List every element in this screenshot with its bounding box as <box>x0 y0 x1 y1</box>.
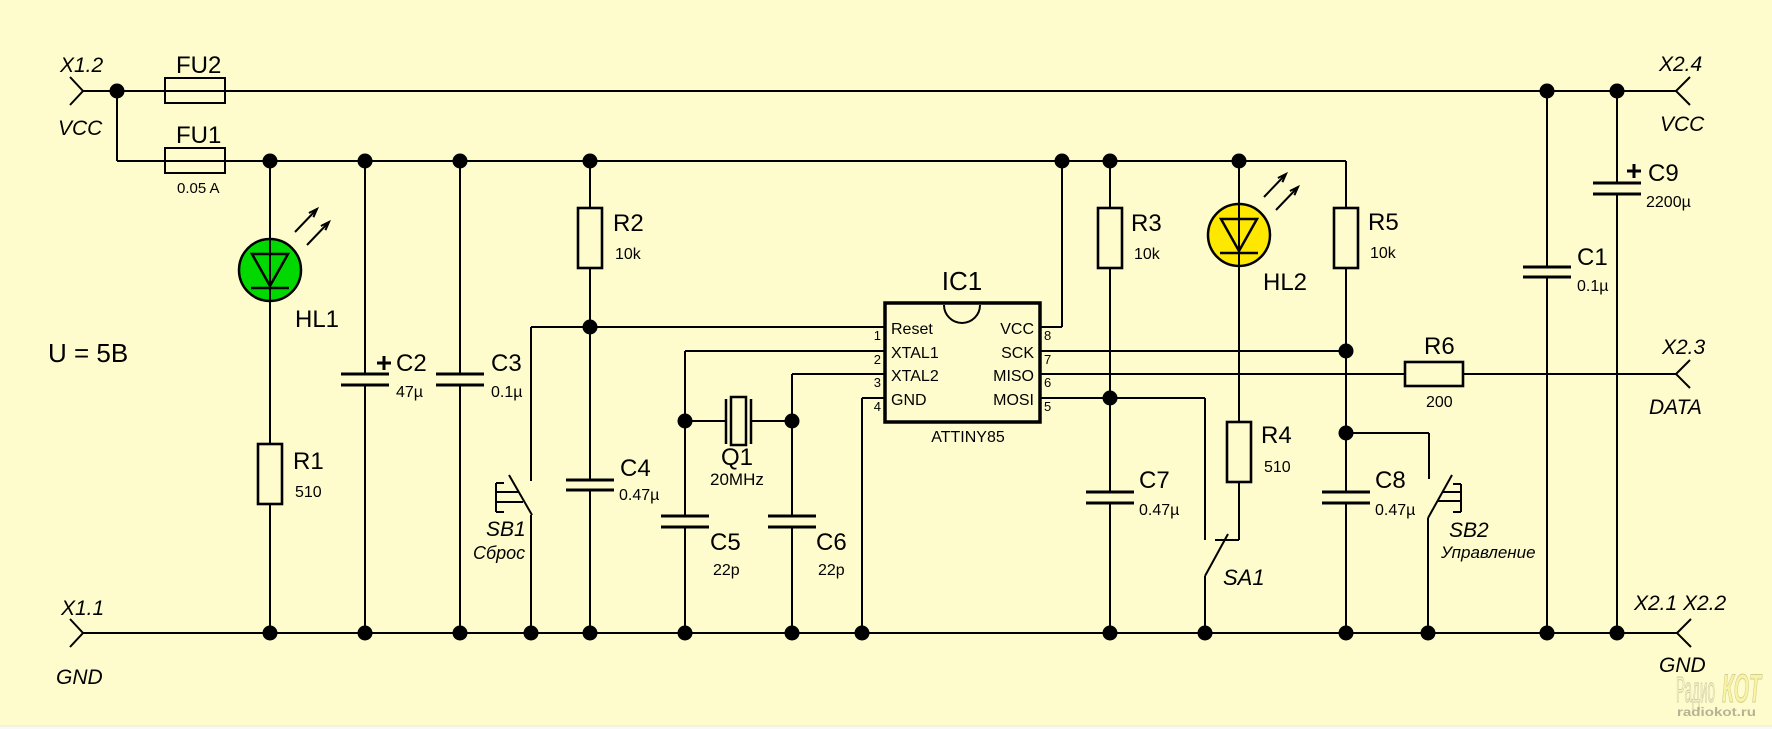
resistor R3 <box>1098 208 1122 268</box>
wire: C9 column <box>1616 91 1618 183</box>
svg-text:C4: C4 <box>620 455 651 482</box>
wire: drop from X1.2 junction to FU1 <box>116 91 118 161</box>
wire: XTAL1 net <box>685 350 885 352</box>
svg-text:VCC: VCC <box>1660 113 1705 136</box>
svg-text:1: 1 <box>874 328 881 343</box>
svg-text:SA1: SA1 <box>1223 565 1265 590</box>
node: crystal left <box>678 414 693 429</box>
wire: VCC pin 8 riser <box>1040 326 1062 328</box>
node: rail2 junction HL2 <box>1232 154 1247 169</box>
svg-text:C5: C5 <box>710 529 741 556</box>
node: X1.2 junction <box>110 84 125 99</box>
node: rail2 junction R3 <box>1103 154 1118 169</box>
capacitor C6 <box>768 515 816 518</box>
svg-text:X2.1 X2.2: X2.1 X2.2 <box>1633 592 1727 615</box>
LED HL1 (green) <box>239 239 301 301</box>
node: GND junction C6 <box>785 626 800 641</box>
node: crystal right <box>785 414 800 429</box>
svg-text:510: 510 <box>295 484 322 501</box>
svg-text:C6: C6 <box>816 529 847 556</box>
node: GND junction IC1 GND <box>855 626 870 641</box>
capacitor C2 (electrolytic) <box>341 373 389 376</box>
node: GND junction C2 <box>358 626 373 641</box>
resistor R5 <box>1334 208 1358 268</box>
capacitor C1 <box>1523 266 1571 269</box>
svg-text:10k: 10k <box>1370 245 1397 262</box>
svg-text:510: 510 <box>1264 459 1291 476</box>
node: rail2 junction HL1 <box>263 154 278 169</box>
svg-text:Q1: Q1 <box>721 444 753 471</box>
node: MOSI-R3 junction <box>1103 391 1118 406</box>
capacitor C8 <box>1322 491 1370 494</box>
connector X1.2 <box>70 77 83 105</box>
wire: HL2/R4 column <box>1238 161 1240 422</box>
svg-text:U = 5В: U = 5В <box>48 338 128 368</box>
svg-text:DATA: DATA <box>1649 396 1702 419</box>
switch SA1 <box>1205 534 1228 576</box>
resistor R6 <box>1405 362 1463 386</box>
wire: top VCC rail X1.2 to X2.4 <box>83 90 1676 92</box>
connector X2.3 <box>1676 360 1690 388</box>
svg-text:HL2: HL2 <box>1263 269 1307 296</box>
node: GND junction SB1 <box>524 626 539 641</box>
svg-text:C2: C2 <box>396 350 427 377</box>
svg-text:0.1µ: 0.1µ <box>491 384 522 401</box>
fuse FU1 <box>165 148 225 173</box>
svg-text:5: 5 <box>1044 399 1051 414</box>
node: GND junction C8 <box>1339 626 1354 641</box>
capacitor C3 <box>436 373 484 376</box>
svg-text:R5: R5 <box>1368 209 1399 236</box>
node: GND junction C1 <box>1540 626 1555 641</box>
svg-text:VCC: VCC <box>58 117 103 140</box>
svg-text:10k: 10k <box>615 246 642 263</box>
wire: MOSI net pin 5 <box>1040 397 1205 399</box>
svg-text:MISO: MISO <box>993 368 1034 385</box>
svg-text:20MHz: 20MHz <box>710 470 764 489</box>
svg-text:R1: R1 <box>293 448 324 475</box>
svg-text:8: 8 <box>1044 328 1051 343</box>
wire: GND rail X1.1 to X2.1/X2.2 <box>83 632 1677 634</box>
svg-text:C1: C1 <box>1577 244 1608 271</box>
wire: MISO net pin 6 <box>1040 373 1405 375</box>
wire: C2 column <box>364 161 366 374</box>
node: GND junction C9 <box>1610 626 1625 641</box>
svg-text:0.1µ: 0.1µ <box>1577 278 1608 295</box>
wire: fused VCC rail (rail2) <box>117 160 1346 162</box>
wire: XTAL2 net <box>792 373 885 375</box>
wire: HL1/R1 column <box>269 161 271 444</box>
svg-text:Управление: Управление <box>1440 543 1536 562</box>
svg-text:2: 2 <box>874 352 881 367</box>
resistor R1 <box>258 444 282 504</box>
svg-text:IC1: IC1 <box>942 266 982 296</box>
svg-text:HL1: HL1 <box>295 306 339 333</box>
svg-text:X1.2: X1.2 <box>59 54 104 77</box>
capacitor C9 (electrolytic) <box>1593 182 1641 185</box>
node: GND junction SA1 <box>1198 626 1213 641</box>
svg-text:XTAL2: XTAL2 <box>891 368 939 385</box>
node: GND junction C3 <box>453 626 468 641</box>
node: R2-Reset junction <box>583 320 598 335</box>
svg-text:SCK: SCK <box>1001 345 1034 362</box>
LED HL2 (yellow) <box>1208 204 1270 266</box>
node: GND junction SB2 <box>1421 626 1436 641</box>
svg-text:C3: C3 <box>491 350 522 377</box>
svg-text:10k: 10k <box>1134 246 1161 263</box>
wire: IC GND net <box>862 397 885 399</box>
svg-text:SB1: SB1 <box>486 518 526 541</box>
fuse FU2 <box>165 78 225 103</box>
svg-text:2200µ: 2200µ <box>1646 194 1691 211</box>
svg-text:22p: 22p <box>818 562 845 579</box>
node: rail2 junction IC1 VCC <box>1055 154 1070 169</box>
svg-text:X2.3: X2.3 <box>1661 336 1706 359</box>
svg-text:C7: C7 <box>1139 467 1170 494</box>
crystal Q1 <box>685 420 726 422</box>
svg-text:R2: R2 <box>613 210 644 237</box>
svg-text:SB2: SB2 <box>1449 519 1489 542</box>
svg-text:3: 3 <box>874 375 881 390</box>
svg-text:R3: R3 <box>1131 210 1162 237</box>
svg-text:22p: 22p <box>713 562 740 579</box>
node: rail2 junction C2 <box>358 154 373 169</box>
svg-text:radiokot.ru: radiokot.ru <box>1677 705 1756 719</box>
wire: C1 column <box>1546 91 1548 267</box>
node: GND junction C4 <box>583 626 598 641</box>
svg-text:7: 7 <box>1044 352 1051 367</box>
svg-text:VCC: VCC <box>1000 321 1034 338</box>
wire: R2/C4 column <box>589 161 591 208</box>
node: rail2 junction R2 <box>583 154 598 169</box>
svg-text:FU2: FU2 <box>176 52 221 79</box>
capacitor C4 <box>566 479 614 482</box>
node: SCK-R5 junction <box>1339 344 1354 359</box>
svg-text:XTAL1: XTAL1 <box>891 345 939 362</box>
push-button SB2 <box>1428 475 1452 518</box>
svg-text:Reset: Reset <box>891 321 933 338</box>
svg-text:0.47µ: 0.47µ <box>619 487 659 504</box>
svg-text:47µ: 47µ <box>396 384 423 401</box>
svg-text:MOSI: MOSI <box>993 392 1034 409</box>
svg-text:4: 4 <box>874 399 881 414</box>
wire: Reset net <box>531 326 885 328</box>
svg-text:0.47µ: 0.47µ <box>1139 502 1179 519</box>
capacitor C5 <box>661 515 709 518</box>
svg-text:ATTINY85: ATTINY85 <box>931 429 1005 446</box>
svg-text:6: 6 <box>1044 375 1051 390</box>
svg-text:FU1: FU1 <box>176 122 221 149</box>
svg-text:R4: R4 <box>1261 422 1292 449</box>
svg-text:C9: C9 <box>1648 160 1679 187</box>
svg-text:200: 200 <box>1426 394 1453 411</box>
svg-text:R6: R6 <box>1424 333 1455 360</box>
resistor R2 <box>578 208 602 268</box>
capacitor C7 <box>1086 491 1134 494</box>
node: GND junction C7 <box>1103 626 1118 641</box>
svg-text:0.05 A: 0.05 A <box>177 180 220 197</box>
wire: C3 column <box>459 161 461 374</box>
svg-text:Сброс: Сброс <box>473 543 525 563</box>
connector X1.1 <box>70 619 83 647</box>
connector X2.1 X2.2 <box>1677 619 1691 647</box>
wire: R3/C7 column <box>1109 161 1111 208</box>
node: GND junction R1 <box>263 626 278 641</box>
wire: SCK net pin 7 <box>1040 350 1346 352</box>
node: GND junction C5 <box>678 626 693 641</box>
svg-text:GND: GND <box>56 666 103 689</box>
push-button SB1 <box>509 475 532 515</box>
wire: R5/C8 column <box>1345 161 1347 208</box>
node: C8/SB2 junction <box>1339 426 1354 441</box>
svg-text:GND: GND <box>891 392 927 409</box>
svg-text:X1.1: X1.1 <box>60 597 104 620</box>
node: rail2 junction C3 <box>453 154 468 169</box>
resistor R4 <box>1227 422 1251 482</box>
svg-text:0.47µ: 0.47µ <box>1375 502 1415 519</box>
wire: SB2 branch <box>1346 432 1429 434</box>
svg-text:X2.4: X2.4 <box>1658 53 1702 76</box>
connector X2.4 <box>1676 77 1690 105</box>
svg-text:C8: C8 <box>1375 467 1406 494</box>
IC IC1 ATTINY85 <box>885 303 1040 422</box>
svg-text:Радио: Радио <box>1676 669 1715 710</box>
